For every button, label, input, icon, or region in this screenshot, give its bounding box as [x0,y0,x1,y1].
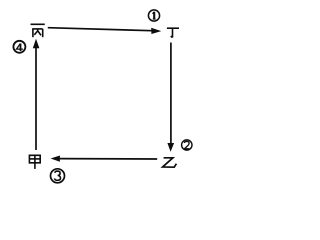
node 甲 (character drawn as strokes) [29,155,40,169]
label circled 1 [148,10,159,21]
arrowhead top [151,28,161,34]
node 丁 (character drawn as strokes) [167,28,179,37]
wire: right arrow 丁→乙 [170,43,172,144]
wire: top arrow 丙→丁 [48,28,152,31]
label circled 2 [182,140,192,150]
wire: left arrow 甲→丙 [35,48,37,150]
label circled 4 [13,41,25,53]
node 乙 (character drawn as strokes) [163,158,177,167]
arrowhead left side [33,39,40,49]
wire: bottom arrow 乙→甲 [60,158,158,160]
arrowhead bottom side [51,156,60,162]
arrowhead right side [167,143,174,152]
label circled 3 [51,169,65,183]
node 丙 (character drawn as strokes) [31,24,45,37]
